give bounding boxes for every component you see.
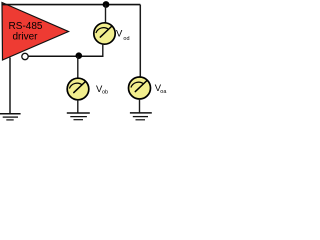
node: junction dot on bottom wire xyxy=(76,52,83,59)
wire: top output A from driver to right corner xyxy=(2,4,140,6)
voltmeter Voa (right meter) xyxy=(129,77,151,99)
ground (left, under driver) xyxy=(0,114,21,120)
ground (under Vob) xyxy=(67,113,90,120)
wire: from top junction down to Vod meter xyxy=(105,5,107,24)
wire: Voa bottom stem xyxy=(139,99,141,112)
wire: bottom output B from bubble to corner xyxy=(28,55,103,57)
node: junction dot on top wire xyxy=(103,1,110,8)
wire: right vertical down to Voa meter xyxy=(139,5,141,78)
voltmeter Vob (middle meter) xyxy=(67,78,89,100)
driver U1 (RS-485 driver triangle) xyxy=(2,3,69,61)
svg-text:driver: driver xyxy=(12,32,38,43)
svg-text:od: od xyxy=(123,36,129,42)
wire: Vob bottom stem xyxy=(77,100,79,113)
ground (under Voa) xyxy=(130,113,152,120)
svg-text:V: V xyxy=(116,28,123,39)
svg-text:RS-485: RS-485 xyxy=(9,21,43,32)
svg-text:ob: ob xyxy=(102,90,108,96)
wire: left ground wire from driver bottom corner xyxy=(9,58,11,114)
voltmeter Vod (top meter) xyxy=(94,23,115,44)
inverting output bubble xyxy=(22,53,28,59)
wire: from bottom junction down to Vob meter xyxy=(77,56,79,78)
wire: Vod bottom stem down to bottom wire xyxy=(102,44,104,56)
svg-text:oa: oa xyxy=(160,89,167,95)
